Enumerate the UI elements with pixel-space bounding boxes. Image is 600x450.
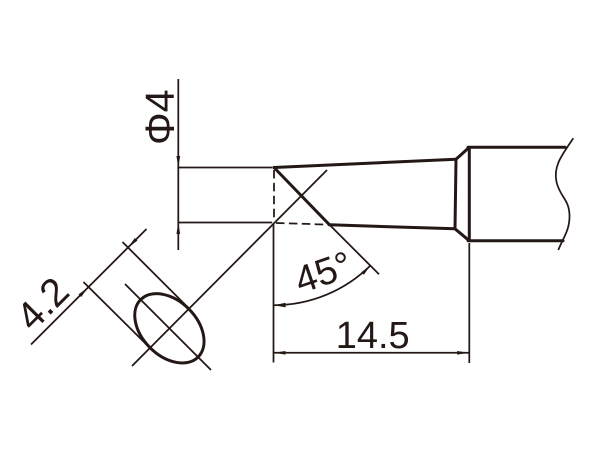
svg-text:Φ4: Φ4 (137, 89, 183, 145)
svg-text:14.5: 14.5 (336, 315, 410, 357)
